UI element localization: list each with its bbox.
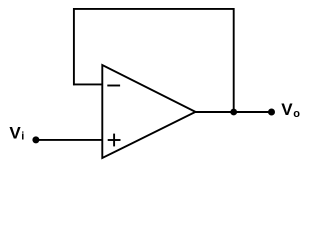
wire: feedback left vertical	[73, 8, 75, 85]
wire: feedback top horizontal	[73, 8, 235, 10]
node: feedback junction dot	[230, 109, 237, 116]
wire: feedback right vertical	[233, 8, 235, 112]
op-amp U1 triangle	[102, 65, 195, 158]
svg-text:V: V	[9, 124, 21, 143]
op-amp plus sign (non-inverting input)	[108, 134, 121, 147]
wire: Vi input horizontal	[36, 139, 102, 141]
wire: output horizontal	[196, 111, 272, 113]
op-amp minus sign (inverting input)	[107, 85, 120, 87]
svg-text:i: i	[21, 130, 24, 142]
wire: inverting input horizontal	[73, 83, 102, 85]
node: Vo terminal dot	[268, 109, 275, 116]
svg-text:o: o	[293, 108, 300, 120]
node: Vi terminal dot	[32, 136, 39, 143]
svg-text:V: V	[281, 100, 293, 119]
